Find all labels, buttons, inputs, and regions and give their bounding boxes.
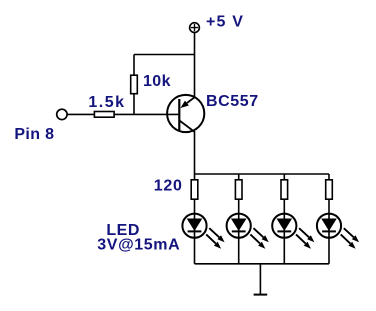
wire 10k top lead <box>133 55 135 76</box>
wire top branch to 10k <box>134 54 195 56</box>
resistor R4 120 <box>235 180 242 199</box>
resistor R6 120 <box>326 180 333 199</box>
svg-text:3V@15mA: 3V@15mA <box>97 236 180 253</box>
LED D1 <box>182 214 224 249</box>
svg-text:10k: 10k <box>143 73 171 90</box>
wire branch 4 <box>328 174 330 264</box>
wire 1.5k to base <box>114 113 178 115</box>
wire collector down <box>194 132 196 174</box>
wire top bus <box>195 173 330 175</box>
svg-text:+5 V: +5 V <box>206 13 244 30</box>
svg-text:BC557: BC557 <box>206 93 259 110</box>
wire branch 1 <box>194 174 196 264</box>
resistor R1 10k <box>131 75 138 94</box>
resistor R5 120 <box>281 180 288 199</box>
ground <box>254 264 268 295</box>
LED D3 <box>272 214 314 249</box>
wire branch 2 <box>238 174 240 264</box>
wire branch 3 <box>283 174 285 264</box>
LED D2 <box>227 214 269 249</box>
resistor R2 1.5k <box>94 112 114 118</box>
+5V supply terminal <box>190 23 200 33</box>
svg-text:1.5k: 1.5k <box>88 94 125 111</box>
svg-text:120: 120 <box>154 178 183 195</box>
wire 10k bottom lead <box>133 94 135 115</box>
LED D4 <box>317 214 359 249</box>
resistor R3 120 <box>191 180 198 199</box>
svg-text:Pin 8: Pin 8 <box>14 126 54 143</box>
wire Pin8 to 1.5k <box>67 113 94 115</box>
wire supply to emitter <box>194 33 196 98</box>
transistor Q1 BC557 <box>167 95 204 132</box>
wire bottom bus <box>195 263 330 265</box>
Pin 8 terminal <box>57 109 67 119</box>
